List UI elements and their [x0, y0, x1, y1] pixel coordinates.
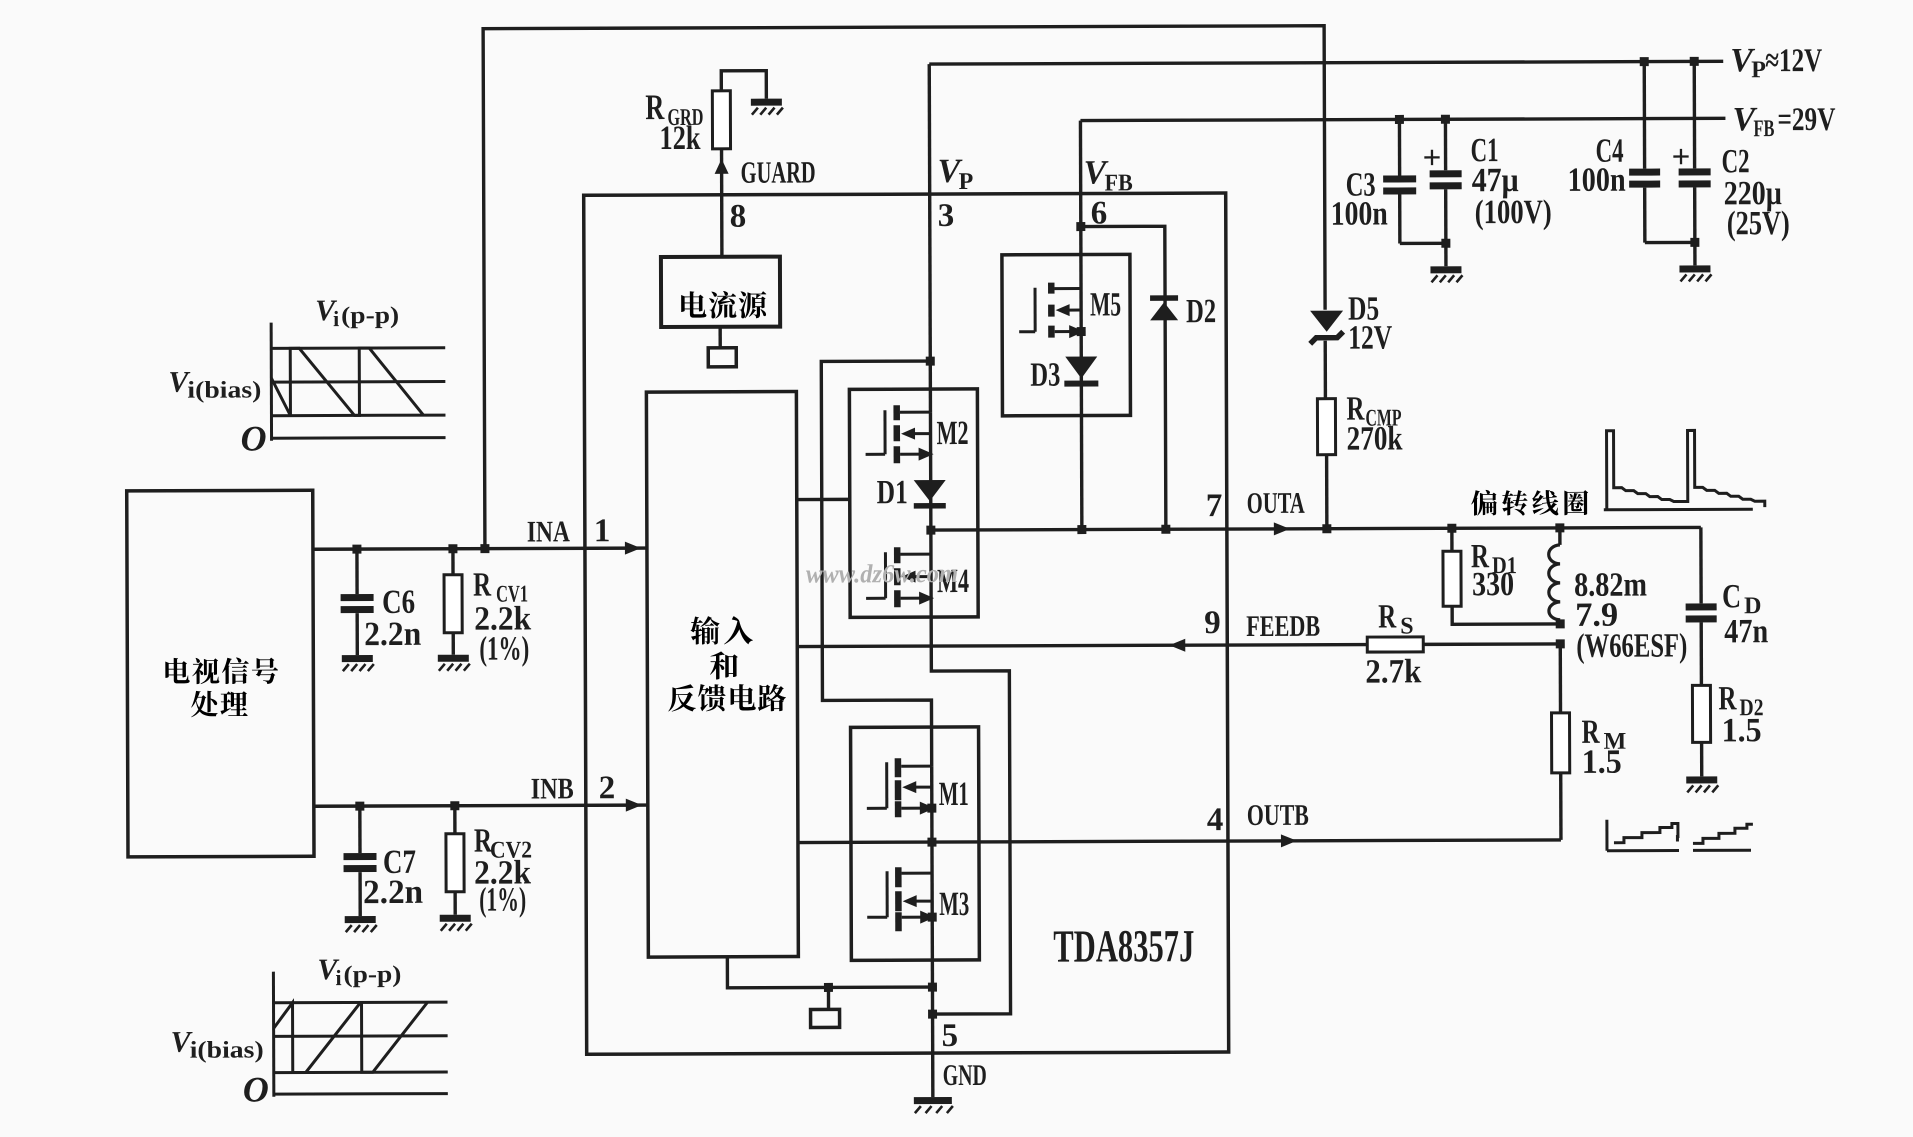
transistor M1: [867, 758, 935, 817]
label V_i(bias) bottom: [171, 1025, 264, 1063]
wire C2 to ground: [1693, 242, 1696, 265]
M2/M4 cell box: [849, 389, 978, 617]
wire terminal stub: [827, 987, 830, 1009]
wire R_GRD top to ground: [721, 71, 766, 99]
svg-text:≈12V: ≈12V: [1765, 43, 1822, 79]
svg-text:D3: D3: [1030, 357, 1060, 394]
block 电视信号处理: [127, 490, 314, 857]
label C3: [1346, 167, 1376, 204]
label 330: [1472, 566, 1514, 603]
junction comp loop on INA: [480, 544, 489, 553]
svg-text:=29V: =29V: [1777, 102, 1835, 138]
svg-text:P: P: [1751, 57, 1766, 83]
svg-text:GUARD: GUARD: [741, 154, 816, 189]
label C4: [1595, 133, 1623, 170]
resistor R_M: [1552, 713, 1570, 773]
label D5: [1348, 291, 1379, 328]
label V_FB pin6: [1084, 154, 1133, 196]
svg-text:(W66ESF): (W66ESF): [1576, 627, 1687, 664]
diode D3: [1064, 357, 1098, 387]
wire current source bottom stub: [718, 327, 721, 348]
label M4: [937, 563, 969, 600]
svg-text:9: 9: [1204, 605, 1221, 641]
resistor R_D1: [1443, 551, 1461, 606]
svg-text:+: +: [1672, 139, 1691, 175]
label 1% R_CV2: [479, 882, 526, 919]
current source block 电流源: [661, 257, 780, 327]
junction VP at C2: [1690, 57, 1699, 66]
diode D2: [1150, 295, 1178, 320]
label FEEDB: [1246, 610, 1320, 643]
svg-text:(1%): (1%): [479, 630, 529, 667]
label R_GRD: [645, 87, 703, 131]
capacitor C_D: [1686, 603, 1717, 622]
label 220u C2: [1724, 175, 1782, 212]
label R_CMP: [1346, 390, 1401, 431]
wire RD1 top: [1450, 528, 1453, 551]
svg-text:12k: 12k: [659, 120, 700, 157]
junction terminal stub: [824, 983, 833, 992]
label 47n: [1724, 613, 1768, 650]
junction GND net detour: [928, 1010, 937, 1019]
label 2.7k: [1365, 653, 1421, 690]
capacitor C4: [1629, 62, 1661, 243]
svg-text:M1: M1: [939, 776, 969, 813]
capacitor C3: [1383, 119, 1416, 243]
label INA: [527, 515, 570, 548]
waveform deflection current pulses: [1604, 430, 1765, 510]
label R_D1: [1471, 538, 1517, 579]
junction C1 bottom: [1441, 239, 1450, 248]
junction OUTB at M1/M3: [927, 838, 936, 847]
junction GND net at pin5: [928, 983, 937, 992]
M5/D3 cell box: [1002, 254, 1131, 415]
arrow INA into block: [625, 542, 641, 555]
label R_CV2: [474, 822, 532, 863]
label GUARD: [741, 154, 816, 189]
wire R_S to coil node: [1423, 642, 1560, 646]
label D1: [877, 474, 908, 511]
waveform input INB sawtooth: [273, 971, 447, 1097]
wire C_D to R_D2: [1699, 622, 1703, 685]
svg-text:C: C: [1722, 578, 1741, 615]
wire pin 8 GUARD: [720, 149, 724, 257]
ground at C7: [345, 916, 377, 932]
label pin 6: [1091, 195, 1108, 231]
label 2.2n C7: [363, 874, 423, 911]
label plus C2: [1672, 139, 1691, 175]
svg-text:GND: GND: [943, 1059, 987, 1092]
junction VFB at C1: [1441, 115, 1450, 124]
resistor R_CMP: [1317, 399, 1335, 455]
label V_P 12V: [1730, 42, 1822, 83]
label plus C1: [1423, 140, 1442, 176]
svg-text:8: 8: [730, 199, 747, 235]
svg-text:i(bias): i(bias): [187, 377, 261, 403]
label pin 4: [1207, 802, 1224, 838]
junction VP at C4: [1640, 57, 1649, 66]
svg-text:D2: D2: [1186, 293, 1216, 330]
svg-text:OUTA: OUTA: [1247, 487, 1305, 520]
label R_M: [1582, 714, 1627, 755]
label 12k: [659, 120, 700, 157]
svg-text:www.dz6w.com: www.dz6w.com: [806, 559, 958, 589]
junction M5 source: [1077, 327, 1086, 336]
transistor M3: [867, 867, 935, 931]
label 1.5 R_D2: [1722, 712, 1762, 749]
wire C4 C2 bottom join: [1645, 241, 1695, 245]
svg-text:OUTB: OUTB: [1247, 799, 1309, 832]
junction R_CV1: [448, 544, 457, 553]
label pin 3: [938, 198, 955, 234]
junction M3 source: [928, 913, 937, 922]
label 1% R_CV1: [479, 630, 529, 667]
label pin 8: [730, 199, 747, 235]
label C1: [1470, 132, 1498, 169]
wire coil node down to R_M: [1559, 644, 1563, 713]
wire OUTB: [798, 840, 1561, 843]
svg-text:M5: M5: [1090, 286, 1121, 323]
label M3: [939, 886, 969, 923]
wire FEEDB: [797, 645, 1367, 647]
wire C3 C1 bottom join: [1400, 242, 1446, 246]
label C2: [1722, 143, 1750, 180]
label 270k: [1346, 420, 1402, 457]
wire M4 source to GND net via right detour: [930, 412, 1010, 1014]
ground at C1: [1430, 266, 1462, 282]
label V_i(p-p) top: [315, 294, 399, 331]
ground at R_D2: [1686, 776, 1718, 792]
transistor M4: [866, 547, 934, 607]
svg-text:i(bias): i(bias): [190, 1037, 264, 1063]
ground at R_CV2: [440, 915, 472, 931]
label D2: [1186, 293, 1216, 330]
wire C1 to ground: [1444, 243, 1447, 266]
zener diode D5 12V: [1310, 311, 1343, 344]
wire RCMP to OUTA: [1325, 455, 1329, 529]
label pin 1: [594, 513, 611, 549]
svg-text:(1%): (1%): [479, 882, 526, 919]
svg-text:O: O: [243, 1069, 269, 1109]
IC TDA8357J outer box: [584, 193, 1229, 1054]
svg-text:(100V): (100V): [1475, 194, 1552, 231]
label 12V: [1348, 319, 1392, 356]
wire feedback box bottom to GND net: [727, 956, 932, 988]
junction C7: [355, 802, 364, 811]
M1/M3 cell box: [851, 727, 980, 960]
resistor R_GRD: [712, 91, 730, 149]
wire VFB rail (pin6 to right): [1080, 118, 1725, 120]
wire M1 M3 vertical: [930, 766, 934, 917]
label V_i(p-p) bottom: [317, 953, 401, 990]
arrow OUTB: [1281, 834, 1297, 847]
junction OUTA at D2: [1161, 525, 1170, 534]
svg-text:D1: D1: [877, 474, 908, 511]
wire D5 to RCMP: [1324, 341, 1328, 399]
wire top compensation loop from INA node to D5/RCMP branch: [483, 26, 1326, 549]
junction coil bottom RD1: [1556, 619, 1565, 628]
label TDA8357J: [1053, 920, 1194, 971]
wire feedback block to M2 gate cell: [797, 498, 850, 502]
svg-text:(p-p): (p-p): [343, 962, 401, 988]
svg-text:+: +: [1423, 140, 1442, 176]
junction OUTA at D1/M4: [926, 526, 935, 535]
transistor M5: [1019, 283, 1084, 339]
svg-text:P: P: [959, 169, 974, 195]
label pin 5: [942, 1018, 959, 1054]
label C_D: [1722, 578, 1761, 619]
label 100n C4: [1568, 162, 1626, 199]
svg-text:100n: 100n: [1331, 195, 1388, 232]
svg-text:47n: 47n: [1724, 613, 1768, 650]
label OUTA: [1247, 487, 1305, 520]
wire pin 5 GND vertical: [931, 917, 935, 1097]
svg-text:330: 330: [1472, 566, 1514, 603]
svg-text:O: O: [240, 418, 266, 458]
junction OUTA at M5/D3: [1077, 525, 1086, 534]
svg-text:FEEDB: FEEDB: [1246, 610, 1320, 643]
diode D1: [914, 480, 946, 509]
ground at R_CV1: [438, 655, 470, 671]
ground at pin 5 GND: [914, 1097, 953, 1113]
label 7.9: [1575, 597, 1618, 634]
resistor R_D2: [1692, 685, 1710, 742]
svg-text:(p-p): (p-p): [341, 303, 399, 329]
capacitor C2 electrolytic: [1678, 61, 1711, 242]
label V_FB 29V: [1732, 101, 1835, 142]
svg-text:1.5: 1.5: [1722, 712, 1762, 749]
capacitor C7: [343, 806, 376, 916]
waveform OUTB staircase: [1607, 819, 1753, 851]
svg-text:2.2n: 2.2n: [364, 616, 421, 653]
label 25V C2: [1727, 205, 1790, 242]
label 8.82m: [1574, 567, 1647, 604]
capacitor C1 electrolytic: [1429, 119, 1461, 243]
junction C2 bottom: [1690, 238, 1699, 247]
label C6: [382, 584, 415, 621]
svg-text:FB: FB: [1105, 170, 1133, 196]
label 偏转线圈: [1471, 490, 1588, 516]
wire INA: [313, 548, 647, 549]
label M1: [939, 776, 969, 813]
svg-text:i: i: [335, 965, 341, 990]
junction OUTA at RCMP: [1322, 524, 1331, 533]
svg-text:1.5: 1.5: [1582, 744, 1622, 781]
resistor R_S: [1367, 637, 1423, 652]
transistor M2: [865, 405, 933, 463]
arrow OUTA: [1274, 522, 1290, 535]
label M2: [936, 415, 968, 452]
svg-text:FB: FB: [1753, 116, 1774, 142]
svg-text:S: S: [1400, 613, 1413, 639]
label pin 2: [599, 770, 616, 806]
svg-text:3: 3: [938, 198, 955, 234]
junction pin6 D2 branch: [1076, 222, 1085, 231]
junction OUTA at RD1: [1447, 524, 1456, 533]
label V_P pin3: [938, 153, 974, 195]
label O top: [240, 418, 266, 458]
label pin 7: [1206, 488, 1223, 524]
capacitor C6: [340, 549, 373, 655]
label W66ESF: [1576, 627, 1687, 664]
svg-text:TDA8357J: TDA8357J: [1053, 920, 1194, 971]
svg-text:5: 5: [942, 1018, 959, 1054]
arrow FEEDB left: [1169, 639, 1185, 652]
junction R_CV2: [450, 801, 459, 810]
label 2.2k R_CV2: [474, 854, 531, 891]
svg-text:2.2n: 2.2n: [363, 874, 423, 911]
junction OUTA at coil: [1555, 523, 1564, 532]
wire D2 branch: [1081, 226, 1166, 529]
svg-text:i: i: [333, 306, 339, 331]
ground at C2: [1679, 265, 1711, 281]
label O bottom: [243, 1069, 269, 1109]
svg-text:12V: 12V: [1348, 319, 1392, 356]
svg-text:M2: M2: [936, 415, 968, 452]
label GND: [943, 1059, 987, 1092]
wire OUTA corner down to C_D: [1699, 527, 1703, 603]
label pin 9: [1204, 605, 1221, 641]
wire VP branch to M1 drain: [821, 361, 931, 766]
junction VFB at C3: [1395, 115, 1404, 124]
label C7: [383, 844, 416, 881]
wire pin 3 VP vertical: [929, 64, 930, 412]
label 2.2k R_CV1: [474, 600, 531, 637]
label M5: [1090, 286, 1121, 323]
svg-text:100n: 100n: [1568, 162, 1626, 199]
svg-text:270k: 270k: [1346, 420, 1402, 457]
svg-text:7: 7: [1206, 488, 1223, 524]
svg-text:INB: INB: [531, 772, 574, 805]
wire pin 6 VFB vertical: [1080, 121, 1081, 530]
svg-text:2: 2: [599, 770, 616, 806]
svg-text:R: R: [1378, 598, 1396, 635]
svg-text:4: 4: [1207, 802, 1224, 838]
label OUTB: [1247, 799, 1309, 832]
junction M1 source: [927, 804, 936, 813]
junction C6: [352, 545, 361, 554]
label 47u C1: [1472, 162, 1519, 199]
terminal below feedback box: [811, 1009, 840, 1027]
label D3: [1030, 357, 1060, 394]
ground at C6: [342, 655, 374, 671]
svg-text:2.7k: 2.7k: [1365, 653, 1421, 690]
label 2.2n C6: [364, 616, 421, 653]
label R_CV1: [473, 566, 528, 607]
watermark: [806, 559, 958, 589]
label 1.5 R_M: [1582, 744, 1622, 781]
svg-text:INA: INA: [527, 515, 570, 548]
wire INB: [314, 805, 648, 806]
svg-text:M3: M3: [939, 886, 969, 923]
inductor deflection coil: [1549, 528, 1561, 620]
wire RD1 bottom elbow: [1452, 606, 1560, 624]
wire R_M to OUTB corner: [1559, 773, 1563, 840]
label R_S: [1378, 598, 1414, 639]
resistor R_CV2: [446, 806, 464, 915]
waveform input INA sawtooth: [271, 322, 445, 441]
junction VP branch: [926, 357, 935, 366]
label 100V C1: [1475, 194, 1552, 231]
junction coil FEEDB node: [1556, 639, 1565, 648]
terminal below current source: [708, 348, 736, 367]
inner block input & feedback box: [646, 392, 798, 958]
svg-text:6: 6: [1091, 195, 1108, 231]
wire OUTA: [931, 527, 1701, 530]
label R_D2: [1718, 680, 1763, 721]
resistor R_CV1: [444, 549, 462, 655]
svg-text:1: 1: [594, 513, 611, 549]
label V_i(bias) top: [168, 365, 261, 403]
svg-text:R: R: [473, 567, 491, 604]
arrow GUARD up: [715, 159, 729, 174]
arrow INB into block: [626, 799, 642, 812]
wire R_D2 to ground: [1700, 742, 1704, 776]
wire VP rail (pin3 to right): [929, 61, 1723, 64]
ground at R_GRD: [751, 99, 783, 115]
label INB: [531, 772, 574, 805]
label 100n C3: [1331, 195, 1388, 232]
svg-text:(25V): (25V): [1727, 205, 1790, 242]
